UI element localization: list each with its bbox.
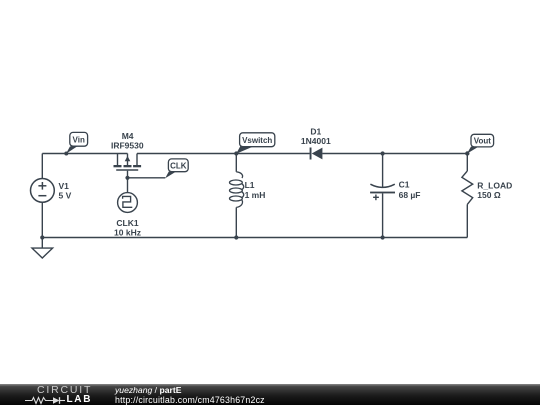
- capacitor C1: [370, 151, 420, 237]
- svg-text:C1: C1: [399, 179, 410, 189]
- svg-text:1N4001: 1N4001: [301, 136, 331, 146]
- node Vswitch flag: [234, 133, 275, 156]
- node Vin flag: [64, 132, 87, 155]
- ground: [32, 238, 53, 259]
- svg-text:Vswitch: Vswitch: [242, 136, 272, 145]
- node gate junction: [125, 176, 129, 180]
- wire top rail middle segment: [137, 153, 310, 155]
- wire gate to CLK flag: [128, 177, 166, 179]
- wire top rail right segment: [322, 153, 467, 155]
- node C1 bottom junction: [381, 235, 385, 239]
- node ground junction: [40, 235, 44, 239]
- svg-text:Vout: Vout: [474, 136, 492, 145]
- svg-text:5 V: 5 V: [59, 190, 72, 200]
- svg-text:68 µF: 68 µF: [399, 190, 421, 200]
- svg-text:R_LOAD: R_LOAD: [477, 180, 512, 190]
- footer bar: [0, 384, 540, 405]
- logo squiggle wire: [25, 398, 53, 404]
- inductor L1: [230, 154, 266, 238]
- node CLK flag: [165, 159, 188, 178]
- svg-text:CLK1: CLK1: [116, 218, 138, 228]
- svg-text:1 mH: 1 mH: [245, 190, 266, 200]
- svg-text:IRF9530: IRF9530: [111, 141, 144, 151]
- node Vout flag: [465, 134, 494, 155]
- svg-text:L1: L1: [245, 180, 255, 190]
- svg-text:150 Ω: 150 Ω: [477, 190, 501, 200]
- svg-text:D1: D1: [310, 127, 321, 137]
- svg-text:CLK: CLK: [170, 161, 187, 170]
- wire top rail left segment: [42, 153, 127, 155]
- voltage source V1: [31, 154, 72, 238]
- clock source CLK1: [114, 193, 141, 238]
- svg-text:10 kHz: 10 kHz: [114, 227, 141, 237]
- resistor R_LOAD: [462, 154, 512, 238]
- wire gate to clock: [127, 171, 129, 193]
- node L1 bottom junction: [234, 235, 238, 239]
- wire bottom ground rail: [42, 237, 467, 239]
- diode D1 1N4001: [301, 127, 331, 160]
- logo diode: [53, 397, 60, 404]
- svg-text:M4: M4: [122, 131, 134, 141]
- CircuitLab logo: [0, 384, 110, 405]
- transistor M4 IRF9530: [111, 131, 144, 170]
- svg-text:Vin: Vin: [73, 136, 85, 145]
